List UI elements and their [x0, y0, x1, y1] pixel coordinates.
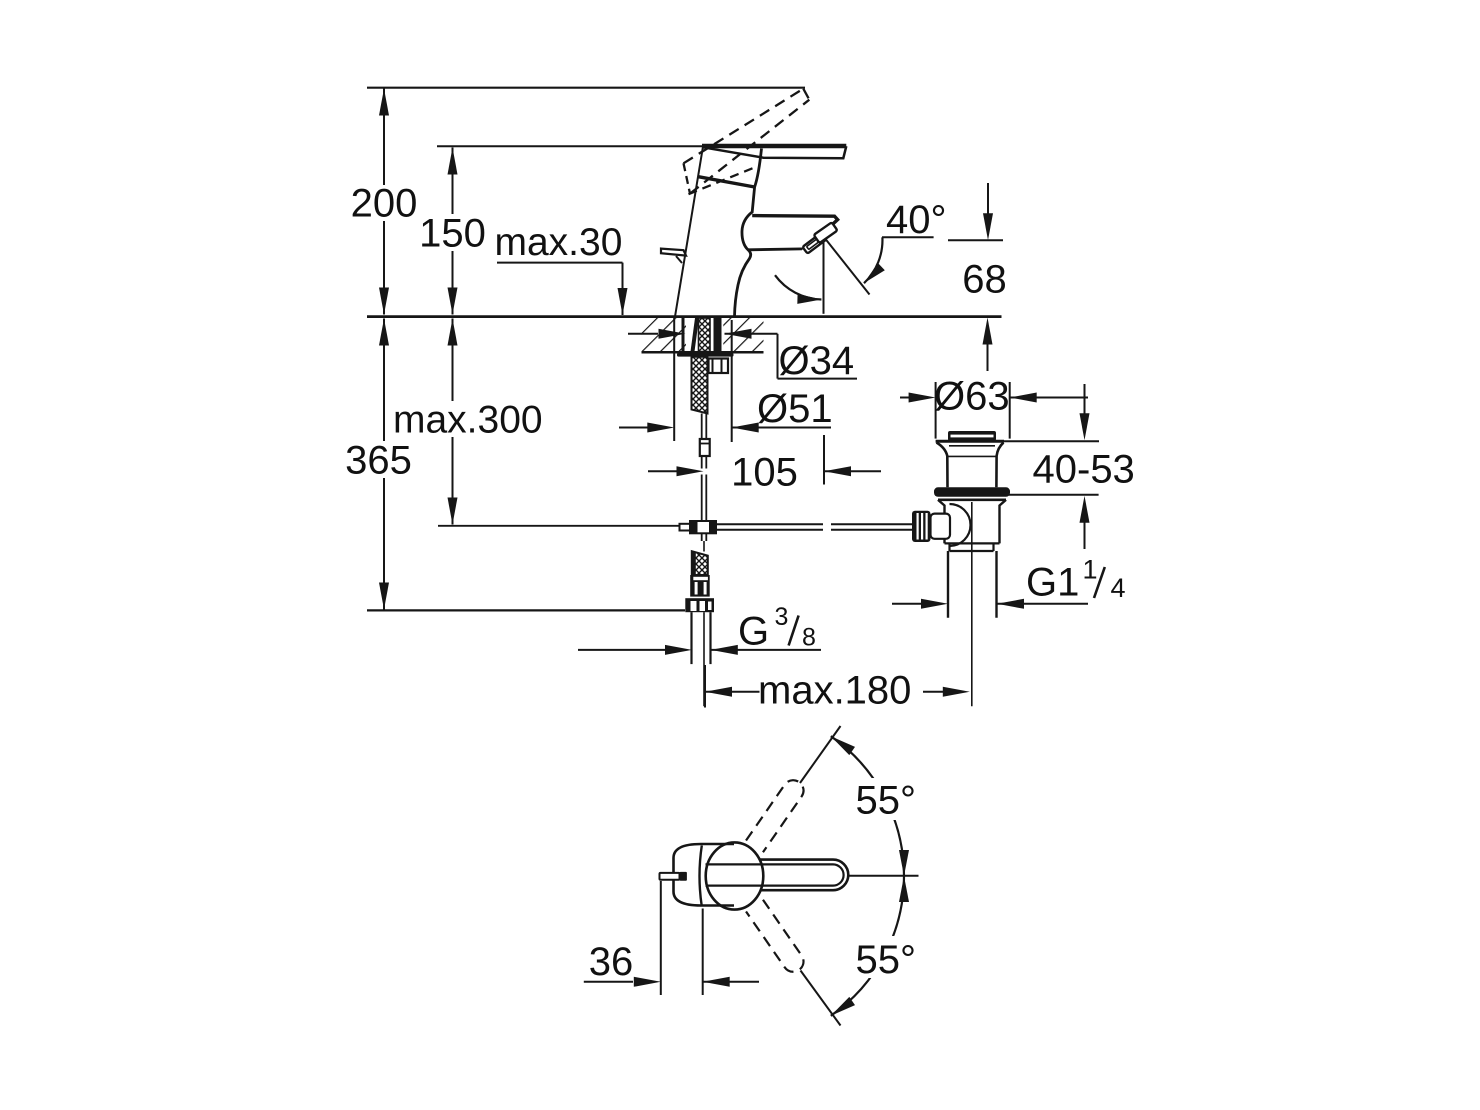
svg-text:105: 105	[731, 451, 798, 495]
svg-text:40°: 40°	[886, 198, 947, 242]
svg-text:Ø51: Ø51	[757, 387, 833, 431]
svg-text:40-53: 40-53	[1033, 448, 1135, 492]
svg-text:G1: G1	[1026, 561, 1079, 605]
svg-text:max.30: max.30	[495, 221, 623, 264]
svg-text:8: 8	[802, 624, 816, 652]
svg-text:max.300: max.300	[393, 399, 543, 442]
svg-text:max.180: max.180	[758, 669, 911, 713]
svg-text:3: 3	[775, 603, 789, 631]
svg-text:68: 68	[962, 258, 1007, 302]
svg-text:150: 150	[419, 212, 486, 256]
svg-text:Ø63: Ø63	[934, 375, 1010, 419]
svg-text:55°: 55°	[856, 938, 917, 982]
svg-text:365: 365	[345, 439, 412, 483]
svg-text:200: 200	[351, 182, 418, 226]
svg-text:55°: 55°	[856, 779, 917, 823]
svg-text:G: G	[738, 610, 769, 654]
svg-text:Ø34: Ø34	[779, 339, 855, 383]
svg-text:36: 36	[589, 940, 634, 984]
svg-text:4: 4	[1111, 573, 1126, 603]
svg-text:1: 1	[1083, 555, 1098, 585]
